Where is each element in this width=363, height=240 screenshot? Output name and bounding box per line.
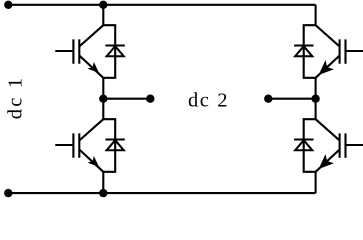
svg-text:dc 1: dc 1: [5, 76, 27, 120]
svg-text:dc 2: dc 2: [188, 90, 229, 112]
